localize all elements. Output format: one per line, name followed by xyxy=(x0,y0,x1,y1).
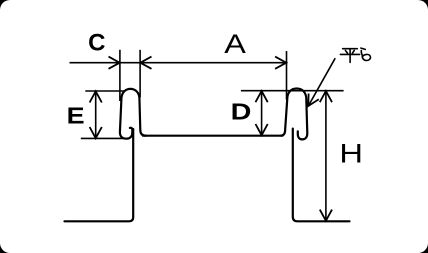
leader line flat xyxy=(308,58,335,106)
left riser and left bottom pan xyxy=(65,129,134,221)
svg-text:E: E xyxy=(67,103,85,129)
svg-text:A: A xyxy=(224,29,246,59)
web between seams xyxy=(143,135,283,137)
label hira (flat) drawn as strokes xyxy=(340,48,370,62)
arrowhead D bottom (points down) xyxy=(256,124,268,135)
arrowhead H top (points up) xyxy=(320,91,332,102)
extension line C left xyxy=(119,50,121,101)
kana ra xyxy=(361,48,371,60)
arrowhead H bottom (points down) xyxy=(320,210,332,221)
left seam cap outline xyxy=(120,89,146,139)
arrowhead E top (points up) xyxy=(90,91,102,102)
svg-text:C: C xyxy=(88,29,105,56)
arrowhead D top (points up) xyxy=(256,91,268,102)
arrowhead C right (points left) xyxy=(140,57,151,69)
arrowhead A (points right) xyxy=(275,57,286,69)
right seam cap outline xyxy=(281,89,307,140)
extension line E bottom xyxy=(81,137,129,139)
svg-text:D: D xyxy=(231,98,252,125)
extension line E top xyxy=(85,90,124,92)
top reference line right xyxy=(241,90,344,92)
svg-text:H: H xyxy=(339,139,363,169)
dimension line H xyxy=(325,91,327,221)
extension line A right xyxy=(286,51,288,100)
dimension line D xyxy=(261,91,263,136)
kanji hira 平 xyxy=(340,49,359,63)
arrowhead leader (points down-left) xyxy=(308,94,319,107)
dimension line C/A xyxy=(70,62,287,64)
dimension line E xyxy=(95,91,97,138)
arrowhead C left (points right) xyxy=(109,57,120,69)
right riser and right bottom pan xyxy=(293,129,350,222)
arrowhead E bottom (points down) xyxy=(90,127,102,138)
extension line C right xyxy=(139,50,141,98)
